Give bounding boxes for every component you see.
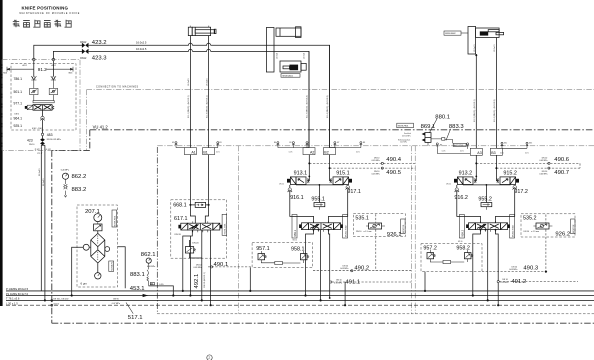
pilot line 491.1 — [330, 279, 412, 306]
svg-text:DN 6: DN 6 — [15, 113, 19, 115]
wire B3 riser — [495, 38, 497, 149]
svg-text:490.5: 490.5 — [386, 170, 401, 176]
shuttle 955.2 — [478, 185, 492, 210]
node VU cross T — [51, 299, 53, 301]
svg-text:0.05 MPa: 0.05 MPa — [372, 160, 381, 162]
wire 957.2 drop — [424, 272, 426, 291]
chinese title 维护时剪刃移动 — [13, 20, 72, 28]
svg-text:0.5%: 0.5% — [159, 284, 164, 286]
svg-text:G1/2.5: G1/2.5 — [53, 303, 59, 305]
wire B2 riser — [329, 45, 331, 147]
svg-text:6-40 MPa: 6-40 MPa — [61, 169, 70, 171]
node 483 — [41, 133, 61, 141]
node P2 st3 — [472, 294, 474, 296]
svg-text:MXXK-FB02: MXXK-FB02 — [454, 145, 463, 147]
title block — [20, 6, 81, 15]
svg-text:Druckhub: Druckhub — [404, 133, 411, 135]
station bottom dashed rail — [157, 313, 594, 315]
component 668.1 — [173, 202, 209, 208]
svg-text:10.5x2: 10.5x2 — [277, 52, 279, 59]
svg-text:DN 10 (A.9/10.1): DN 10 (A.9/10.1) — [203, 272, 206, 287]
wire label 16.0x2.5 — [136, 40, 147, 44]
svg-text:M8: M8 — [363, 142, 365, 144]
filter unit box — [77, 205, 118, 287]
wire cart bus — [296, 184, 344, 186]
node cart bus st3 — [486, 184, 488, 186]
station divider lines — [156, 147, 158, 314]
svg-text:CONNECTION TO MACHINES: CONNECTION TO MACHINES — [96, 86, 139, 89]
svg-text:668.1: 668.1 — [173, 203, 187, 209]
svg-text:862.2: 862.2 — [72, 174, 87, 180]
svg-text:0.05 MPa: 0.05 MPa — [340, 268, 349, 270]
svg-text:6 MC - 1/HC: 6 MC - 1/HC — [32, 128, 43, 130]
svg-text:423.2: 423.2 — [92, 40, 107, 46]
nameplate Z3 — [444, 31, 468, 35]
test point M12 — [496, 142, 507, 154]
svg-text:DN 20: DN 20 — [192, 242, 199, 244]
svg-text:925.1: 925.1 — [14, 124, 23, 128]
svg-text:862.1: 862.1 — [141, 252, 156, 258]
svg-text:911.4 (DN10) - (B.9/10.2): 911.4 (DN10) - (B.9/10.2) — [327, 95, 329, 118]
svg-text:926.2: 926.2 — [555, 232, 570, 238]
svg-text:955.2: 955.2 — [478, 197, 492, 203]
svg-text:B2: B2 — [324, 150, 328, 154]
cartridge 915.2 — [497, 171, 519, 185]
filter diamond 1 — [91, 233, 105, 246]
svg-text:0.05 MPa: 0.05 MPa — [539, 173, 548, 175]
check 916.1 — [288, 185, 314, 223]
port block B2 — [324, 148, 336, 155]
svg-text:M13: M13 — [529, 143, 532, 145]
svg-text:883.1: 883.1 — [130, 272, 145, 278]
pilot line 491.2 — [497, 279, 578, 306]
wire A3 riser to cart — [474, 155, 476, 181]
shuttle 955.1 — [311, 185, 325, 210]
node A3 elbow — [475, 176, 477, 178]
svg-text:0.05 MPa: 0.05 MPa — [194, 267, 203, 269]
svg-text:490.7: 490.7 — [554, 170, 569, 176]
svg-text:DN 10: DN 10 — [336, 280, 341, 282]
svg-text:DN 90: DN 90 — [113, 299, 118, 301]
cartridge 915.1 — [330, 171, 352, 185]
svg-text:M5: M5 — [289, 142, 291, 144]
nodes V2 ports — [313, 229, 315, 231]
svg-text:0.07 MPa: 0.07 MPa — [112, 303, 121, 305]
dimension 91.2 — [3, 64, 73, 74]
nameplate V3r — [510, 215, 515, 239]
valve V3 — [466, 221, 510, 232]
valve 423 — [27, 136, 45, 151]
node filter T — [71, 294, 73, 296]
svg-text:0.1/2: 0.1/2 — [46, 149, 52, 151]
wire drop T1 — [201, 230, 203, 301]
wire A1 riser — [189, 35, 191, 147]
wire drop 012 — [44, 150, 46, 300]
valve 883.2 — [64, 179, 87, 197]
svg-text:913.1: 913.1 — [294, 171, 308, 177]
box 535.2 — [521, 214, 575, 238]
wire drop P1 — [183, 230, 193, 291]
svg-text:10.1 MPa: 10.1 MPa — [400, 142, 407, 144]
svg-text:DN 10: DN 10 — [356, 231, 361, 233]
svg-text:P 14MPa 28.0x2.5: P 14MPa 28.0x2.5 — [6, 287, 29, 291]
port block B3 — [490, 148, 502, 155]
svg-text:490.4: 490.4 — [386, 157, 401, 163]
bus line L — [6, 302, 594, 306]
svg-text:490.3: 490.3 — [523, 265, 538, 271]
svg-text:DN 100 - DN 2/22: DN 100 - DN 2/22 — [53, 299, 68, 301]
node L st2 — [329, 297, 331, 299]
svg-text:B1: B1 — [203, 150, 207, 154]
wire A2 riser — [308, 51, 310, 147]
svg-text:16.0x2.5: 16.0x2.5 — [206, 77, 208, 86]
svg-text:423.3: 423.3 — [92, 56, 107, 62]
cylinder Z2 assembly — [266, 27, 306, 72]
svg-text:917.1: 917.1 — [347, 189, 361, 195]
bus line P — [6, 287, 594, 291]
svg-text:491.1: 491.1 — [345, 279, 360, 285]
manifold bar — [33, 101, 54, 103]
svg-text:DN 10: DN 10 — [446, 184, 451, 186]
check 916.2 — [454, 185, 480, 223]
node T st3 — [487, 299, 489, 301]
svg-text:MCML-V003: MCML-V003 — [513, 224, 515, 237]
svg-text:MXXK-B002: MXXK-B002 — [445, 33, 455, 35]
svg-text:0.15 MPa: 0.15 MPa — [334, 282, 343, 284]
test point M5 — [289, 142, 295, 154]
test point M2 — [172, 142, 184, 148]
wire drop P2 st3 — [473, 230, 481, 296]
svg-text:B3: B3 — [491, 151, 495, 155]
svg-text:535.2: 535.2 — [523, 216, 537, 222]
node VU cross L — [51, 304, 53, 306]
svg-text:959.2: 959.2 — [460, 229, 464, 236]
svg-text:492.1: 492.1 — [194, 274, 200, 289]
label 925.1 — [14, 124, 44, 130]
wire B2 riser to cart — [330, 155, 332, 181]
svg-text:10.5x1.5: 10.5x1.5 — [474, 43, 476, 52]
wire A2 riser to cart — [307, 155, 309, 181]
cartridge 913.1 — [279, 171, 309, 186]
nodes V3 ports — [480, 229, 482, 231]
check valve 964.1 — [14, 110, 45, 133]
svg-text:M16: M16 — [69, 72, 73, 74]
valve 883.1 — [147, 263, 164, 286]
pilot line 490.7 — [495, 167, 580, 176]
svg-text:ø 1.5 mm: ø 1.5 mm — [531, 231, 539, 233]
svg-text:2: 2 — [208, 356, 210, 360]
check 917.2 — [496, 185, 528, 223]
wire drop P2a — [189, 236, 191, 296]
svg-text:10.5x2: 10.5x2 — [304, 52, 306, 59]
svg-text:KNIFE POSITIONING: KNIFE POSITIONING — [22, 6, 69, 11]
svg-text:0.15 MPa: 0.15 MPa — [500, 282, 509, 284]
pressure switch 207 — [94, 224, 102, 231]
svg-text:MXXK-FB01: MXXK-FB01 — [398, 126, 409, 128]
node cart bus — [319, 184, 321, 186]
border frame left bar — [0, 0, 3, 306]
wire drop L st3 — [496, 230, 499, 281]
test point M4 — [274, 142, 279, 148]
valve 423.2 — [80, 40, 106, 48]
svg-text:0.1%: 0.1% — [216, 152, 220, 154]
svg-text:883.2: 883.2 — [72, 187, 87, 193]
bypass check 2 — [105, 247, 110, 252]
wire 883.1 to P2 — [149, 286, 174, 296]
gauge filter bottom — [95, 273, 101, 279]
node T st2 — [320, 299, 322, 301]
svg-text:490.2: 490.2 — [354, 266, 369, 272]
svg-text:26.9x2.5: 26.9x2.5 — [39, 167, 41, 176]
wire cart bus st3 — [463, 184, 511, 186]
wire A1 to valve — [190, 155, 195, 224]
node 957 P — [249, 290, 251, 292]
supply line 2 — [53, 49, 309, 147]
svg-text:0.1%: 0.1% — [356, 152, 360, 154]
svg-text:Entlastungsdruck: Entlastungsdruck — [398, 138, 410, 141]
svg-text:916.1: 916.1 — [290, 195, 304, 201]
svg-text:16.0x2.5: 16.0x2.5 — [188, 77, 190, 86]
svg-text:617.1: 617.1 — [174, 216, 188, 222]
svg-text:MAINTENANCE OF MOVABLE KNIFE: MAINTENANCE OF MOVABLE KNIFE — [20, 12, 81, 15]
wire box riser B — [52, 61, 54, 76]
node A3 top — [475, 54, 477, 56]
node T1 — [201, 299, 203, 301]
svg-text:0.1%: 0.1% — [500, 152, 504, 154]
box 957.2 958.2 — [421, 241, 482, 272]
svg-text:911.5 (DN10) - (B.9/10.1): 911.5 (DN10) - (B.9/10.1) — [474, 99, 476, 122]
wire drop L st2 — [329, 230, 330, 298]
wire drop L1 — [210, 230, 212, 305]
node filter out — [172, 294, 174, 296]
svg-text:10.5x1.5: 10.5x1.5 — [494, 43, 496, 52]
svg-text:A2: A2 — [310, 150, 314, 154]
wire drop P2 st2 — [306, 230, 314, 296]
boundary VU 41.2 — [52, 125, 594, 324]
pilot line 490.6 — [475, 157, 580, 168]
pilot line 490.1 — [194, 262, 253, 269]
node L1 — [210, 304, 212, 306]
nameplate MCMK-F002 — [109, 261, 114, 271]
bypass check 1 — [83, 244, 89, 250]
svg-text:M2: M2 — [172, 142, 174, 144]
svg-text:26.9x2.5: 26.9x2.5 — [43, 177, 45, 186]
node A2 elbow — [308, 176, 310, 178]
gauge 862.2 — [61, 169, 86, 180]
pilot line 490.5 — [329, 167, 416, 176]
svg-text:MCMK-F001: MCMK-F001 — [114, 216, 116, 227]
svg-text:MCMK-F2: MCMK-F2 — [111, 262, 113, 271]
wire drop T st3 — [487, 230, 489, 301]
svg-text:MCML-V002: MCML-V002 — [346, 224, 348, 237]
test point M7 — [330, 142, 340, 148]
svg-text:16.0x2.5: 16.0x2.5 — [136, 40, 147, 44]
svg-text:490.6: 490.6 — [554, 157, 569, 163]
svg-text:0.1%: 0.1% — [460, 150, 464, 152]
svg-text:A3: A3 — [477, 151, 481, 155]
cartridge 913.2 — [446, 171, 476, 186]
svg-text:0.1%: 0.1% — [525, 152, 529, 154]
svg-text:DN 16 0.85 MPa: DN 16 0.85 MPa — [47, 139, 62, 141]
supply unit inner dashed box — [11, 64, 76, 130]
box 535.1 — [353, 214, 405, 238]
svg-text:977.1: 977.1 — [14, 101, 23, 105]
valve 617.1 — [174, 216, 222, 236]
svg-text:517.1: 517.1 — [128, 315, 143, 321]
wire A3 riser — [475, 54, 477, 148]
wire label 16.0x2.5 b — [136, 47, 147, 51]
svg-text:P.1 T: P.1 T — [38, 153, 44, 155]
node supply in 2 — [52, 58, 55, 61]
svg-text:0.05 MPa: 0.05 MPa — [539, 160, 548, 162]
port block A2 — [303, 148, 315, 155]
test point M8 — [335, 142, 365, 154]
svg-text:VU 41.2: VU 41.2 — [93, 125, 109, 130]
svg-text:M16: M16 — [3, 72, 7, 74]
svg-text:M5 10: M5 10 — [293, 239, 298, 241]
svg-text:491.2: 491.2 — [511, 279, 526, 285]
svg-text:16.0x2.5: 16.0x2.5 — [136, 47, 147, 51]
svg-text:M8: M8 — [151, 284, 153, 286]
svg-text:DN 10: DN 10 — [279, 184, 284, 186]
pilot line 490.2 — [313, 214, 412, 272]
nameplate 926.1 — [401, 219, 406, 234]
svg-text:957.1: 957.1 — [256, 246, 270, 252]
pressure switch 869.1 — [397, 114, 471, 153]
wire 957 box drop — [249, 267, 251, 291]
svg-text:DN12: DN12 — [80, 41, 87, 44]
wire B1 riser — [208, 35, 210, 147]
svg-text:911.1 (DN10) - (A.9/10.1): 911.1 (DN10) - (A.9/10.1) — [187, 95, 190, 118]
valve V2 — [299, 221, 343, 232]
valve 618 DN20 — [185, 240, 201, 258]
filter diamond 2 — [91, 250, 105, 263]
svg-text:915.2: 915.2 — [503, 171, 517, 177]
svg-text:483: 483 — [47, 133, 53, 137]
svg-text:535.1: 535.1 — [355, 215, 369, 221]
svg-text:M3: M3 — [219, 142, 221, 144]
svg-text:6 µm: 6 µm — [81, 282, 88, 286]
svg-text:MCML-V001: MCML-V001 — [225, 224, 227, 235]
svg-text:955.1: 955.1 — [311, 197, 325, 203]
svg-text:DN 10: DN 10 — [524, 231, 529, 233]
cylinder Z3 — [468, 27, 504, 55]
node P2a — [189, 294, 191, 296]
nameplate 926.2 — [571, 219, 576, 234]
wire drop P12 — [40, 150, 42, 291]
cylinder Z1 — [188, 26, 216, 36]
gauge 862.1 — [141, 252, 156, 268]
test point M13 — [502, 142, 532, 154]
node 012 to T — [44, 299, 46, 301]
port block A1 — [184, 148, 196, 155]
wire filter out — [118, 247, 126, 288]
bus line T — [6, 297, 594, 301]
wire B3 riser to cart — [496, 155, 499, 181]
nameplate 959.1 — [292, 215, 297, 239]
nameplate V2r — [343, 215, 348, 239]
boundary CONNECTION TO MACHINES — [87, 86, 594, 151]
pilot line 490.3 — [482, 215, 548, 273]
svg-text:0.1%: 0.1% — [289, 152, 293, 154]
label 517.1 — [126, 303, 143, 321]
nameplate 959.2 — [459, 215, 464, 239]
svg-text:DN 20: DN 20 — [175, 234, 182, 236]
node supply in 1 — [33, 58, 36, 61]
svg-text:911.3 (DN10) - (B.9/10.2): 911.3 (DN10) - (B.9/10.2) — [307, 95, 309, 118]
node P2 st2 — [304, 294, 306, 296]
svg-text:0.05 MPa: 0.05 MPa — [509, 269, 518, 271]
test point M6 — [278, 142, 309, 148]
svg-text:880.1: 880.1 — [435, 114, 450, 120]
svg-text:911.2 (DN10) - (A.9/10.1): 911.2 (DN10) - (A.9/10.1) — [205, 95, 208, 118]
svg-text:0.1%: 0.1% — [442, 150, 446, 152]
wire drop T st2 — [320, 230, 322, 301]
nameplate MXXK-B001 — [281, 74, 300, 78]
wire B1 to valve — [205, 155, 208, 224]
supply unit box outline — [2, 59, 80, 150]
valve 501.1 pair — [14, 85, 58, 101]
svg-text:917.2: 917.2 — [514, 189, 528, 195]
svg-text:913.2: 913.2 — [459, 171, 473, 177]
svg-text:91.2: 91.2 — [38, 67, 47, 72]
nameplate V001 — [222, 214, 227, 235]
port block A3 — [470, 148, 482, 155]
svg-text:MCMT-01: MCMT-01 — [403, 225, 405, 233]
svg-text:P.1/2: P.1/2 — [35, 149, 41, 151]
check valve 786.1 pair — [14, 76, 57, 85]
station1 box — [171, 200, 227, 258]
svg-text:959.1: 959.1 — [293, 229, 297, 236]
svg-text:407.10 MPa: 407.10 MPa — [402, 135, 411, 137]
gauge filter top — [94, 214, 102, 224]
filter rails — [91, 231, 105, 273]
svg-text:786.1: 786.1 — [14, 77, 23, 81]
test point M3 — [215, 142, 222, 148]
svg-text:M5 10: M5 10 — [458, 241, 463, 243]
svg-text:M7: M7 — [337, 142, 339, 144]
wire box riser A — [33, 61, 35, 76]
wire filter to T — [72, 247, 84, 295]
svg-text:DN 10: DN 10 — [29, 144, 34, 146]
svg-text:MXXK-B001: MXXK-B001 — [283, 75, 293, 77]
valve 977.1 — [14, 101, 54, 115]
port block B1 — [203, 148, 221, 155]
svg-text:M12: M12 — [504, 143, 507, 145]
svg-text:DN 10: DN 10 — [502, 279, 507, 281]
box 957.1 958.1 — [252, 239, 313, 267]
svg-text:423: 423 — [27, 138, 33, 142]
boundary station top rail — [157, 145, 594, 147]
svg-text:501.1: 501.1 — [14, 90, 23, 94]
svg-text:490.1: 490.1 — [214, 262, 229, 268]
svg-text:958.1: 958.1 — [291, 247, 305, 253]
svg-text:869.1: 869.1 — [421, 124, 436, 130]
svg-text:ø 1.5 mm: ø 1.5 mm — [364, 231, 372, 233]
check 917.1 — [329, 185, 361, 223]
svg-text:926.1: 926.1 — [387, 232, 402, 238]
svg-text:M4: M4 — [274, 142, 276, 144]
valve 423.3 — [80, 49, 107, 62]
svg-text:MCMT-02: MCMT-02 — [573, 225, 575, 233]
svg-text:A1: A1 — [191, 150, 195, 154]
svg-text:911.6 (DN10) - (B.9/10.2): 911.6 (DN10) - (B.9/10.2) — [494, 99, 496, 122]
node P1 — [182, 290, 184, 292]
supply line 1 — [34, 43, 330, 148]
node 957.2 P — [424, 290, 426, 292]
svg-text:A 1/2: A 1/2 — [23, 64, 27, 67]
svg-text:964.1: 964.1 — [14, 116, 23, 120]
